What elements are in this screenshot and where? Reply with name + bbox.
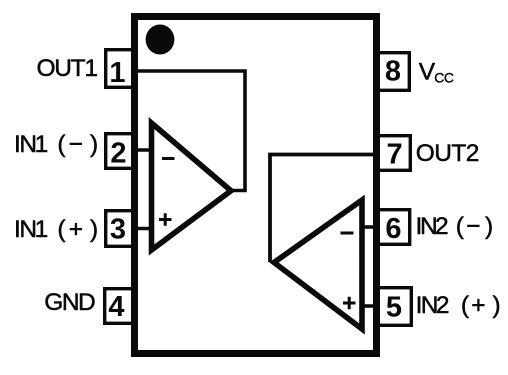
svg-text:CC: CC <box>434 70 454 86</box>
pin box 1 <box>106 50 135 88</box>
svg-text:5: 5 <box>386 291 402 323</box>
op-amp B non-inverting input marker (+) <box>343 297 356 309</box>
wire pin7 to op-amp B output <box>270 155 374 263</box>
pin box 6 <box>377 210 410 245</box>
svg-text:4: 4 <box>108 291 124 323</box>
wire pin2 to op-amp A inverting input <box>136 148 153 151</box>
pin box 8 <box>377 53 410 91</box>
svg-text:GND: GND <box>44 289 95 316</box>
wire pin5 to op-amp B non-inverting input <box>360 304 378 307</box>
pin box 5 <box>377 288 412 326</box>
svg-text:7: 7 <box>387 138 403 170</box>
pin box 7 <box>377 136 411 171</box>
IC package body U1 <box>135 17 377 354</box>
svg-text:1: 1 <box>109 57 125 89</box>
op-amp B inverting input marker (-) <box>341 232 354 235</box>
op-amp A non-inverting input marker (+) <box>159 213 172 226</box>
pin box 4 <box>105 289 135 324</box>
wire pin6 to op-amp B inverting input <box>360 225 378 228</box>
wire pin1 to op-amp A output <box>138 71 245 191</box>
op-amp A inverting input marker (-) <box>162 157 175 160</box>
op-amp B (right) <box>274 200 362 329</box>
op-amp A (left) <box>152 123 232 250</box>
wire pin3 to op-amp A non-inverting input <box>136 227 153 230</box>
pin box 3 <box>106 211 135 247</box>
svg-text:6: 6 <box>385 213 401 245</box>
svg-text:OUT1: OUT1 <box>37 55 98 82</box>
pin box 2 <box>106 134 135 169</box>
svg-text:8: 8 <box>385 55 401 87</box>
svg-text:3: 3 <box>110 214 126 246</box>
svg-text:V: V <box>419 59 436 86</box>
svg-text:2: 2 <box>110 138 126 170</box>
pin 1 index dot <box>146 25 175 55</box>
svg-text:OUT2: OUT2 <box>416 140 479 167</box>
